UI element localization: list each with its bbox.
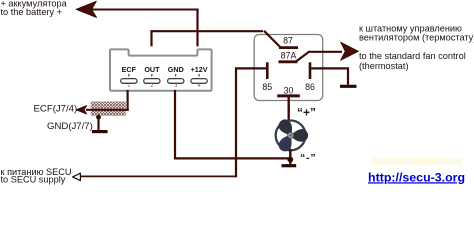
svg-text:to the battery +: to the battery + (1, 7, 63, 17)
relay K1 body (254, 35, 323, 101)
wire: 30 to fan + (288, 96, 290, 122)
wire: fan - to junction (289, 149, 291, 165)
wire: OUT to relay common (150, 30, 263, 32)
relay coil terminal 85 bar (266, 62, 269, 79)
svg-text:to SECU supply: to SECU supply (1, 175, 66, 185)
arrow to standard fan control (341, 42, 359, 60)
svg-text:“+”: “+” (297, 106, 316, 120)
wire: battery + feed horizontal (90, 9, 199, 11)
pin slot 1 (121, 79, 137, 84)
svg-text:ECF: ECF (122, 65, 137, 74)
svg-text:87A: 87A (281, 51, 297, 61)
svg-text:GND(J7/7): GND(J7/7) (47, 121, 93, 132)
svg-text:2: 2 (150, 83, 153, 89)
wire: 87A to thermostat (308, 51, 342, 53)
wire: OUT pin stub (150, 31, 152, 46)
wire: coil 86 ground drop (347, 67, 349, 85)
svg-text:вентилятором (термостату): вентилятором (термостату) (359, 33, 474, 43)
ground symbol (fan minus) (282, 164, 297, 167)
electric fan M1 (276, 117, 311, 152)
pin slot 4 (191, 79, 207, 84)
wire: ECF through chassis block (86, 109, 129, 111)
arrow to ECF(J7/4) (76, 105, 87, 114)
junction node (chassis GND) (96, 115, 101, 120)
wire: SECU supply to coil 85 (235, 67, 266, 69)
ground symbol (relay coil) (340, 85, 357, 88)
wire: drop to +12V pin (196, 9, 198, 47)
svg-text:4: 4 (198, 83, 201, 89)
pin slot 3 (168, 79, 184, 84)
pin tick 3 (175, 74, 177, 77)
wire: coil 86 to ground horizontal (311, 67, 348, 69)
svg-text:to the standard fan control: to the standard fan control (359, 51, 466, 61)
svg-text:85: 85 (262, 82, 272, 92)
svg-text:1: 1 (127, 83, 130, 89)
relay contact 30 bar (277, 94, 300, 97)
relay switch arm (to contact 87) (264, 31, 281, 48)
wire: SECU supply riser (235, 68, 237, 177)
svg-text:3: 3 (174, 83, 177, 89)
faint watermark remnant (372, 158, 462, 165)
pin tick 2 (151, 74, 153, 77)
svg-text:87: 87 (283, 36, 293, 46)
pin tick 1 (128, 74, 130, 77)
svg-text:OUT: OUT (144, 65, 160, 74)
ground symbol (chassis) (92, 130, 108, 133)
pin tick 4 (198, 74, 200, 77)
wire: GND pin to fan - horizontal (175, 157, 290, 159)
svg-text:“-”: “-” (300, 152, 316, 164)
wire: GND pin drop (174, 90, 176, 160)
wire: ECF pin drop (126, 90, 128, 111)
wire: chassis ground stub (97, 117, 99, 130)
svg-text:GND: GND (168, 65, 184, 74)
junction node (fan minus / GND) (287, 157, 293, 163)
arrow to SECU supply (open) (73, 173, 81, 180)
chassis hatch block (car body ground plane) (91, 102, 126, 116)
svg-text:30: 30 (284, 85, 294, 95)
connector housing (SECU-3 wire harness connector) (110, 49, 212, 90)
relay contact 87 bar (279, 46, 298, 49)
wire: 87A exit diagonal (296, 52, 309, 62)
svg-text:http://secu-3.org: http://secu-3.org (368, 170, 465, 184)
wire: SECU supply horizontal (80, 175, 237, 177)
svg-text:ECF(J7/4): ECF(J7/4) (34, 104, 78, 115)
arrow to battery + (76, 1, 97, 17)
relay coil terminal 86 bar (309, 62, 312, 79)
svg-text:+12V: +12V (191, 65, 208, 74)
svg-text:86: 86 (305, 82, 315, 92)
relay contact 87A bar (279, 60, 298, 63)
svg-text:(thermostat): (thermostat) (359, 61, 409, 71)
pin slot 2 (144, 79, 160, 84)
